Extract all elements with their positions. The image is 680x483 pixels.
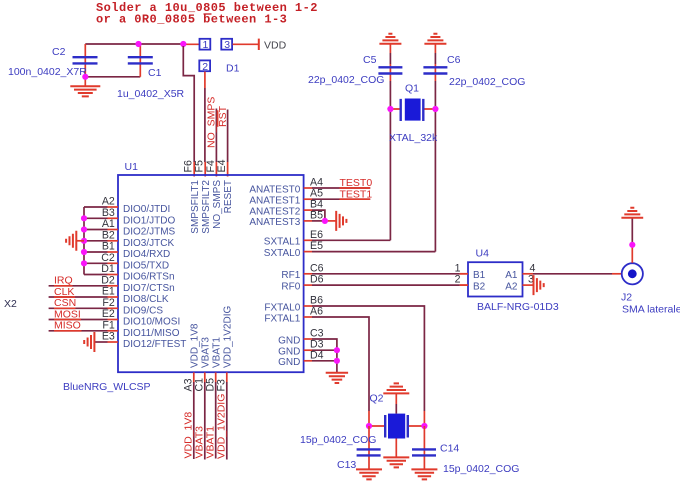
pin D5 VBAT1 <box>204 337 222 459</box>
crystal Q1 XTAL_32k <box>389 83 438 144</box>
junction dot above C1 <box>135 41 141 47</box>
svg-text:C13: C13 <box>337 459 356 471</box>
solder bridge D1 pad 3 <box>221 39 232 51</box>
svg-text:D2: D2 <box>101 274 115 286</box>
pin D3 GND <box>278 339 337 358</box>
svg-text:BALF-NRG-01D3: BALF-NRG-01D3 <box>477 301 559 313</box>
wire C6 branch to pin E5 <box>434 81 436 252</box>
svg-text:DIO5/TXD: DIO5/TXD <box>123 261 169 272</box>
pin D4 GND <box>278 349 337 368</box>
svg-text:VDD: VDD <box>264 40 287 52</box>
junction dots on gpio bus <box>81 215 87 266</box>
svg-text:B1: B1 <box>473 270 486 281</box>
svg-text:F5: F5 <box>194 160 206 172</box>
pin B1 DIO4/RXD <box>84 241 170 261</box>
svg-text:D6: D6 <box>310 274 324 286</box>
svg-text:ANATEST0: ANATEST0 <box>249 184 300 195</box>
svg-text:E6: E6 <box>310 229 323 241</box>
svg-text:1u_0402_X5R: 1u_0402_X5R <box>117 88 185 100</box>
pin D1 DIO6/RTSn <box>84 263 175 283</box>
svg-text:DIO10/MOSI: DIO10/MOSI <box>123 317 180 328</box>
svg-text:ANATEST3: ANATEST3 <box>249 217 300 228</box>
pin C3 GND <box>278 328 337 351</box>
svg-text:A2: A2 <box>102 196 115 208</box>
svg-text:C3: C3 <box>310 328 324 340</box>
svg-text:E1: E1 <box>102 286 115 298</box>
ground above Q2 <box>383 383 409 413</box>
pin B6 FXTAL0 <box>264 295 424 427</box>
svg-text:U4: U4 <box>476 248 490 260</box>
pin A6 FXTAL1 <box>264 306 369 427</box>
pin D6 RF0 <box>281 274 468 293</box>
junction dot at F6 branch <box>180 41 186 47</box>
svg-text:DIO4/RXD: DIO4/RXD <box>123 249 170 260</box>
wire gnd bus right <box>336 350 338 372</box>
svg-text:GND: GND <box>278 335 300 346</box>
svg-text:RST: RST <box>217 105 229 127</box>
svg-text:B5: B5 <box>310 209 323 221</box>
junction dot at C2 ground <box>82 74 88 80</box>
svg-text:A2: A2 <box>505 281 518 292</box>
pin F3 VDD_1V2DIG <box>215 306 233 460</box>
svg-text:A4: A4 <box>310 177 323 189</box>
pin E5 SXTAL0 <box>264 240 436 259</box>
pin E6 SXTAL1 <box>264 229 391 248</box>
svg-text:F1: F1 <box>102 319 114 331</box>
pin A5 ANATEST1 net TEST1 <box>249 188 372 207</box>
svg-text:B3: B3 <box>102 207 115 219</box>
pin B4 ANATEST2 <box>249 199 325 221</box>
svg-text:SMA laterale: SMA laterale <box>622 304 680 316</box>
IC U1 BlueNRG_WLCSP <box>63 161 304 393</box>
pin F4 NO_SMPS <box>205 160 223 229</box>
junction dot Q2 right <box>421 423 427 429</box>
svg-text:VDD_1V2DIG: VDD_1V2DIG <box>223 306 234 368</box>
svg-text:GND: GND <box>278 357 300 368</box>
svg-text:C14: C14 <box>440 443 459 455</box>
pin A1 DIO2/JTMS <box>84 218 176 238</box>
svg-text:IRQ: IRQ <box>54 275 73 287</box>
svg-text:F2: F2 <box>102 297 114 309</box>
pin F2 DIO9/CS net CSN <box>49 297 164 317</box>
pin C2 DIO5/TXD <box>84 252 169 272</box>
junction dot above J2 <box>629 242 635 248</box>
capacitor C14 <box>412 426 519 475</box>
pin C6 RF1 <box>281 262 468 281</box>
wire pad3 to VDD <box>233 43 259 45</box>
svg-text:3: 3 <box>224 39 230 51</box>
wire VDD top rail <box>85 43 183 45</box>
svg-text:SXTAL1: SXTAL1 <box>264 237 301 248</box>
capacitor C2 <box>8 44 98 78</box>
power VDD terminal <box>259 39 287 52</box>
svg-text:E3: E3 <box>102 331 115 343</box>
ground below C13 <box>356 469 382 479</box>
svg-text:A1: A1 <box>102 218 115 230</box>
svg-text:E5: E5 <box>310 240 323 252</box>
pin B2 DIO3/JTCK <box>84 229 174 249</box>
pin 1 B1 of U4 <box>455 262 486 281</box>
svg-text:DIO0/JTDI: DIO0/JTDI <box>123 204 170 215</box>
svg-text:SXTAL0: SXTAL0 <box>264 248 301 259</box>
svg-text:B2: B2 <box>473 281 486 292</box>
pin 2 B2 of U4 <box>455 274 486 293</box>
pin A2 DIO0/JTDI <box>84 196 170 216</box>
svg-text:2: 2 <box>455 274 461 286</box>
junction dot Q1 right <box>432 106 438 112</box>
svg-text:DIO9/CS: DIO9/CS <box>123 306 163 317</box>
svg-text:Q1: Q1 <box>405 83 419 95</box>
svg-text:CSN: CSN <box>54 297 76 309</box>
svg-text:E2: E2 <box>102 308 115 320</box>
svg-text:F4: F4 <box>205 160 217 172</box>
wire net NO_SMPS <box>206 97 218 177</box>
wire net RST <box>217 105 229 176</box>
svg-text:BlueNRG_WLCSP: BlueNRG_WLCSP <box>63 381 151 393</box>
svg-text:VBAT3: VBAT3 <box>201 337 212 368</box>
svg-text:VBAT1: VBAT1 <box>211 337 222 368</box>
ground at gpio bus <box>66 231 84 251</box>
svg-text:ANATEST2: ANATEST2 <box>249 206 300 217</box>
svg-text:A1: A1 <box>505 270 518 281</box>
connector J2 SMA laterale <box>621 263 680 315</box>
svg-text:100n_0402_X7R: 100n_0402_X7R <box>8 66 87 78</box>
svg-text:2: 2 <box>202 61 208 73</box>
wire pin F6 stub <box>193 162 195 177</box>
svg-text:D1: D1 <box>226 63 240 75</box>
svg-text:DIO2/JTMS: DIO2/JTMS <box>123 227 176 238</box>
solder bridge D1 pad 2 <box>199 60 210 72</box>
pin C1 VBAT3 <box>193 337 211 460</box>
pin F6 SMPSFILT1 <box>183 160 201 234</box>
svg-text:SMPSFILT1: SMPSFILT1 <box>190 180 201 234</box>
ground below C2 <box>70 77 100 97</box>
capacitor C1 <box>117 44 185 100</box>
pin D2 DIO7/CTSn net IRQ <box>49 274 175 294</box>
svg-text:F3: F3 <box>216 379 228 391</box>
ground below Q2 <box>383 439 409 468</box>
ground below C14 <box>411 469 437 479</box>
pin 3 A2 of U4 to ground <box>505 274 534 293</box>
svg-text:E4: E4 <box>216 159 228 172</box>
wire net SMPSFILT1 (dot to pin F6) <box>183 46 194 162</box>
svg-text:DIO11/MISO: DIO11/MISO <box>123 328 180 339</box>
svg-text:VDD_1V8: VDD_1V8 <box>190 323 201 368</box>
junction dot Q2 left <box>366 423 372 429</box>
svg-text:C5: C5 <box>363 54 377 66</box>
svg-text:NO_SMPS: NO_SMPS <box>206 97 218 148</box>
svg-text:D1: D1 <box>101 263 115 275</box>
pin F5 SMPSFILT2 <box>194 160 212 234</box>
pin E1 DIO8/CLK net CLK <box>49 286 169 306</box>
svg-text:D4: D4 <box>310 349 324 361</box>
svg-text:CLK: CLK <box>54 286 74 298</box>
pin B3 DIO1/JTDO <box>84 207 175 227</box>
svg-text:1: 1 <box>455 262 461 274</box>
svg-text:J2: J2 <box>621 292 632 304</box>
svg-text:FXTAL0: FXTAL0 <box>264 302 300 313</box>
wire C2-C1 bottom rail <box>85 76 140 78</box>
junction dots gnd bus <box>334 347 340 364</box>
svg-text:C6: C6 <box>447 54 461 66</box>
svg-text:or a 0R0_0805 between 1-3: or a 0R0_0805 between 1-3 <box>96 13 287 27</box>
balun U4 BALF-NRG-01D3 <box>468 248 559 314</box>
svg-text:DIO3/JTCK: DIO3/JTCK <box>123 238 174 249</box>
svg-text:A6: A6 <box>310 306 323 318</box>
svg-text:B1: B1 <box>102 241 115 253</box>
svg-text:GND: GND <box>278 347 300 358</box>
capacitor C13 <box>300 426 381 471</box>
pin E2 DIO10/MOSI net MOSI <box>49 308 181 328</box>
junction dot Q1 left <box>387 106 393 112</box>
svg-text:DIO7/CTSn: DIO7/CTSn <box>123 283 175 294</box>
svg-text:4: 4 <box>530 262 536 274</box>
ground above C5 <box>379 34 401 53</box>
capacitor C5 <box>308 53 402 86</box>
svg-text:DIO12/FTEST: DIO12/FTEST <box>123 339 186 350</box>
ground above C6 <box>424 34 446 53</box>
svg-text:RF1: RF1 <box>281 270 300 281</box>
svg-text:NO_SMPS: NO_SMPS <box>212 180 223 229</box>
wire C5 branch to pin E6 <box>389 81 391 240</box>
svg-text:ANATEST1: ANATEST1 <box>249 196 300 207</box>
svg-text:DIO1/JTDO: DIO1/JTDO <box>123 216 175 227</box>
ground at pin E3 <box>84 332 94 352</box>
svg-text:DIO8/CLK: DIO8/CLK <box>123 294 169 305</box>
ground below gnd bus <box>326 373 348 383</box>
wire U4 pin4 to J2 <box>533 273 621 275</box>
capacitor C6 <box>423 53 525 88</box>
svg-text:22p_0402_COG: 22p_0402_COG <box>449 76 525 88</box>
pin E4 RESET <box>216 159 234 213</box>
svg-text:C2: C2 <box>52 46 66 58</box>
pin A3 VDD_1V8 <box>182 323 200 459</box>
pin F1 DIO11/MISO net MISO <box>49 319 180 339</box>
svg-text:VDD_1V2DIG: VDD_1V2DIG <box>215 394 227 459</box>
wire net SMPSFILT2 (pad2 to pin F5) <box>204 72 206 177</box>
svg-text:RESET: RESET <box>223 180 234 213</box>
ground at U4 pin 3 <box>534 275 544 295</box>
svg-text:15p_0402_COG: 15p_0402_COG <box>300 434 376 446</box>
wire J2 to ground <box>631 218 633 263</box>
svg-text:C1: C1 <box>148 67 162 79</box>
svg-text:XTAL_32k: XTAL_32k <box>389 132 438 144</box>
svg-text:U1: U1 <box>125 161 139 173</box>
svg-text:X2: X2 <box>4 298 17 310</box>
svg-text:22p_0402_COG: 22p_0402_COG <box>308 74 384 86</box>
pin A4 ANATEST0 net TEST0 <box>249 177 372 196</box>
svg-text:C6: C6 <box>310 262 324 274</box>
pin B5 ANATEST3 to ground <box>249 209 336 228</box>
note text solder instructions <box>96 1 318 27</box>
svg-text:FXTAL1: FXTAL1 <box>264 313 300 324</box>
crystal Q2 <box>369 393 424 439</box>
svg-text:C2: C2 <box>101 252 115 264</box>
svg-text:Q2: Q2 <box>370 393 384 405</box>
pin E3 DIO12/FTEST to ground <box>95 331 187 351</box>
svg-text:RF0: RF0 <box>281 281 300 292</box>
svg-text:DIO6/RTSn: DIO6/RTSn <box>123 272 175 283</box>
ground at pin B5 <box>336 211 346 231</box>
svg-text:SMPSFILT2: SMPSFILT2 <box>201 180 212 234</box>
svg-text:1: 1 <box>203 39 209 51</box>
wire left gpio bus <box>83 207 85 275</box>
svg-text:B2: B2 <box>102 229 115 241</box>
svg-text:MOSI: MOSI <box>54 308 81 320</box>
wire rail to pad1 <box>183 43 199 45</box>
svg-text:MISO: MISO <box>54 320 81 332</box>
svg-text:15p_0402_COG: 15p_0402_COG <box>443 463 519 475</box>
pin 4 A1 of U4 <box>505 262 535 281</box>
solder bridge D1 pad 1 <box>200 39 211 51</box>
ground above J2 <box>621 208 643 218</box>
